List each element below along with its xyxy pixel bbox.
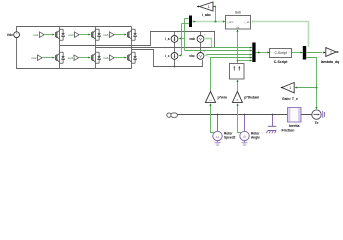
svg-text:i_c: i_c: [165, 54, 170, 58]
wire: p*wm to mux3 input4: [211, 56, 253, 91]
sensor Rotor Speed2: [213, 114, 236, 146]
wire: phase c output: [132, 50, 203, 67]
gate driver sw3: [68, 32, 90, 38]
svg-text:sw4: sw4: [68, 56, 74, 60]
wire: phase b output: [96, 47, 215, 49]
transistor IGBT1 (top leg1): [55, 29, 64, 40]
block wrap: [230, 64, 245, 80]
rotational port flange: [167, 113, 178, 117]
block Inertia: [288, 108, 302, 129]
wire: inverter leg 2: [95, 27, 97, 69]
gain Gain: T_e: [280, 83, 298, 102]
gate driver sw5: [103, 32, 126, 38]
svg-text:i_abc: i_abc: [226, 20, 233, 24]
voltmeter vbc: [189, 48, 206, 60]
svg-text:p*thetam: p*thetam: [244, 95, 259, 99]
sensor Rotor Angle: [240, 114, 260, 146]
wire: DC bus bottom rail: [17, 38, 132, 69]
svg-text:-: -: [16, 35, 17, 39]
svg-text:sw1: sw1: [33, 33, 39, 37]
transistor IGBT2 (bottom leg1): [55, 52, 64, 63]
svg-text:lambda_dq: lambda_dq: [321, 60, 339, 64]
wire: speed to p*wm: [209, 103, 213, 132]
wire: Sub output to demux M2 (vector): [252, 20, 309, 47]
gain p*thetam: [232, 91, 259, 102]
wire: M2 to gain lambda_dq: [306, 51, 325, 53]
mechanical shaft: [177, 114, 312, 116]
svg-text:Speed2: Speed2: [224, 136, 236, 140]
wire: vab to mux3 input1: [204, 39, 252, 49]
wire: M1 to Sub (vector): [192, 5, 225, 22]
svg-text:sw5: sw5: [103, 33, 109, 37]
svg-text:vbc: vbc: [189, 54, 195, 58]
transistor IGBT3 (top leg2): [91, 29, 100, 40]
svg-text:C-Script: C-Script: [274, 60, 288, 64]
current source i_a: [165, 32, 178, 48]
svg-text:i_a: i_a: [165, 37, 170, 41]
svg-text:i_abc: i_abc: [202, 13, 211, 17]
mux M1 (2 signals): [189, 16, 192, 28]
svg-text:sw3: sw3: [68, 33, 74, 37]
svg-text:ω: ω: [209, 98, 211, 102]
svg-text:Friction: Friction: [282, 129, 295, 133]
gain p*wm: [205, 91, 226, 102]
current source i_c: [165, 48, 178, 68]
wire: phase a output: [60, 32, 215, 48]
transistor IGBT5 (top leg3): [127, 29, 136, 40]
svg-text:1: 1: [289, 86, 291, 90]
wire: p*thetam to wrap block: [236, 80, 238, 92]
torque source Te: [312, 110, 325, 125]
svg-text:Inertia: Inertia: [289, 124, 300, 128]
gate driver sw1: [33, 32, 54, 38]
svg-text:ω: ω: [216, 134, 219, 139]
subsystem Sub: [226, 11, 251, 30]
gate driver sw6: [103, 55, 126, 61]
svg-text:1: 1: [208, 5, 210, 9]
wire: inverter leg 1: [59, 27, 61, 69]
svg-text:Sub: Sub: [235, 11, 241, 15]
svg-text:V: V: [199, 54, 202, 58]
wire: control of i_c: [179, 24, 189, 57]
voltmeter vab: [189, 32, 206, 48]
svg-text:1: 1: [330, 51, 332, 55]
svg-text:Vdc: Vdc: [7, 33, 13, 37]
svg-text:C-Script: C-Script: [274, 51, 286, 55]
svg-text:Gain: T_e: Gain: T_e: [282, 97, 298, 101]
wire: M2 to Te and Gain T_e: [295, 58, 318, 110]
svg-text:i_ab: i_ab: [244, 20, 250, 24]
wire: inverter leg 3: [131, 27, 133, 69]
voltage source Vdc: [7, 32, 20, 39]
block C-Script: [270, 49, 292, 65]
friction: [266, 114, 294, 134]
svg-text:Te: Te: [315, 121, 319, 125]
wire: C-Script to demux M2: [292, 51, 303, 53]
gain lambda_dq: [321, 48, 339, 64]
svg-text:p*wm: p*wm: [218, 95, 227, 99]
svg-text:Angle: Angle: [251, 136, 260, 140]
svg-text:sw2: sw2: [31, 56, 37, 60]
wire: theta to Sub bottom input and mux3 input5: [236, 30, 252, 64]
gate driver sw2: [31, 55, 54, 61]
demux M2: [303, 46, 306, 60]
transistor IGBT4 (bottom leg2): [91, 52, 100, 63]
gate driver sw4: [68, 55, 91, 61]
wire: control of i_a and branch to mux3 input2: [179, 19, 252, 52]
wire: DC bus top rail: [17, 27, 132, 32]
gain i_abc: [197, 2, 213, 17]
svg-text:sw6: sw6: [103, 56, 109, 60]
wire: vbc to mux3 input3: [204, 53, 252, 55]
svg-text:V: V: [199, 37, 202, 41]
wire: angle to p*thetam: [236, 103, 240, 132]
mux M3 (5 signals): [252, 43, 255, 63]
svg-text:vab: vab: [189, 37, 195, 41]
wire: M3 to C-Script: [256, 51, 270, 53]
transistor IGBT6 (bottom leg3): [127, 52, 136, 63]
